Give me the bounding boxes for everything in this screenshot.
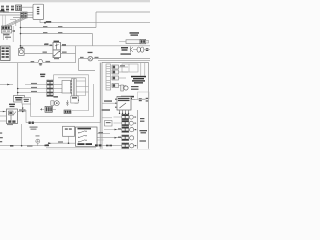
relay Z label <box>9 104 15 108</box>
row3 motor circle <box>130 144 134 148</box>
wire diagonal 2 <box>7 18 24 26</box>
row1 motor circle <box>130 128 134 132</box>
wire W2 riser and top run <box>96 12 150 28</box>
ambient sensor text <box>54 96 59 97</box>
black title bar <box>0 10 5 11</box>
wire X right out <box>97 133 110 135</box>
heater box Y marks <box>65 128 72 129</box>
connector H strip a <box>47 80 50 97</box>
arrow M <box>48 142 51 144</box>
wire out of switch <box>61 53 76 55</box>
wire drop left b <box>4 16 6 27</box>
wire W4 long <box>21 45 151 47</box>
wire Y drop <box>68 136 70 143</box>
ignition contacts <box>80 131 86 142</box>
component engine sensor text <box>54 41 60 42</box>
label right of diode <box>62 44 66 45</box>
pressure switch contact <box>120 103 127 108</box>
box W2 small <box>22 98 31 105</box>
relay Z stem <box>10 115 12 121</box>
label W4 color <box>44 44 49 45</box>
control box top edge <box>102 61 149 63</box>
label carb wire <box>31 61 35 62</box>
wire mid vertical <box>12 26 14 42</box>
relay block R2 cell <box>113 71 115 74</box>
wire diagonal 1 <box>5 18 22 26</box>
thermo box top right <box>71 96 78 103</box>
wire thermo vertical left <box>17 63 19 96</box>
relay block R3 <box>112 76 119 80</box>
trimmer circle <box>36 139 40 143</box>
label trimmer below <box>27 145 33 146</box>
label under switch <box>54 58 59 59</box>
connector C101 top <box>2 26 12 30</box>
label evap text <box>102 109 111 110</box>
tiny caption top <box>7 124 13 125</box>
fusible link box <box>16 5 22 11</box>
relay block R1 cell <box>113 66 115 69</box>
fan control box G <box>62 81 71 94</box>
connector CJ2 <box>24 12 27 18</box>
thermal protector circle <box>124 86 128 90</box>
label dark mid-left <box>40 74 45 78</box>
label protector rows <box>131 86 139 90</box>
label W1 wire color <box>46 21 51 23</box>
row A tick <box>134 117 136 118</box>
node M junction <box>68 142 70 144</box>
label W3 color a <box>43 32 47 33</box>
wire H out 2 <box>53 88 62 90</box>
wire row3 <box>0 14 33 16</box>
wire C101 drop b <box>6 33 8 40</box>
terminal marks far right <box>146 98 148 102</box>
wire relay R2 out <box>119 71 129 73</box>
nested box L4 <box>26 63 101 123</box>
label fan feed 0 <box>31 83 37 84</box>
arrow stub head <box>7 84 10 86</box>
fuse F1 labels row1 <box>1 6 14 8</box>
wire pressure right cont <box>142 99 146 101</box>
label under C101 <box>3 34 10 36</box>
wire stub into fuse strip <box>119 41 126 43</box>
condenser fan row 2 wire <box>97 137 122 139</box>
cylinder b <box>141 47 144 52</box>
row B wire <box>114 122 122 124</box>
node W1 junction <box>44 22 46 24</box>
connector CJ1 <box>20 12 23 18</box>
wire capacitor dashes <box>43 108 45 110</box>
noise condenser block <box>45 106 52 112</box>
compressor clutch text <box>121 47 132 55</box>
vertical drop to bus <box>21 124 23 146</box>
wire relay R4 out <box>119 85 127 87</box>
label small mid <box>5 37 11 38</box>
thermal protector connector <box>121 85 124 91</box>
row2 motor circle <box>130 136 134 140</box>
label X right <box>99 132 104 133</box>
pressure switch pins left <box>115 99 116 108</box>
wire W3 drop <box>92 34 94 46</box>
row2 arrow <box>115 137 118 139</box>
label relay R1 <box>120 65 125 66</box>
label W2 color b <box>58 26 62 27</box>
terminal mark right <box>146 48 149 51</box>
label fan feed 1 <box>31 87 37 88</box>
pins bottom dots <box>119 113 129 114</box>
label left of diode <box>45 43 53 45</box>
relay block R3 cell <box>113 77 115 80</box>
row3 label dark <box>106 145 112 147</box>
label W2 color a <box>43 26 47 27</box>
fusible link cells <box>17 6 21 10</box>
lamp cross <box>89 57 92 60</box>
wire trunk corner <box>10 20 16 27</box>
label fan feed 2 <box>31 91 37 92</box>
nested box L2 <box>54 75 89 111</box>
nested box L3 left edge <box>30 104 32 117</box>
connector I strip b <box>74 79 76 97</box>
wire Z arrow <box>3 111 5 113</box>
cylinder a <box>137 47 140 52</box>
node bus <box>21 145 23 147</box>
connector C101 lower <box>2 30 12 33</box>
inner box blower <box>122 64 138 72</box>
noise condenser stripes <box>46 107 52 111</box>
ignition switch box X <box>76 127 98 146</box>
label Z right <box>19 109 26 110</box>
main relay text <box>37 7 39 15</box>
label lamp wire right <box>95 57 99 58</box>
ambient sensor connector <box>51 101 54 106</box>
wire row4 <box>13 17 33 19</box>
fuse strip dark cells <box>141 40 145 43</box>
wire Z drop vertical <box>22 104 24 112</box>
switch contact <box>54 51 59 56</box>
main relay box <box>33 4 44 19</box>
relay Z coil box <box>9 111 14 115</box>
antenna trimmer text <box>30 127 38 130</box>
diode symbol <box>55 44 59 50</box>
switch box <box>53 50 61 58</box>
ignition unit E box <box>19 49 25 56</box>
relay box small left <box>105 121 113 127</box>
pressure switch pins bottom <box>120 110 129 113</box>
wire I out 2 <box>76 86 88 88</box>
control box left border double <box>100 62 102 148</box>
wire C101 drop a <box>3 33 5 40</box>
box T2 text <box>15 97 23 101</box>
row1 right text <box>140 130 148 133</box>
ignition unit E circle <box>19 50 23 54</box>
row A wire <box>114 116 122 118</box>
node W3 <box>20 33 22 35</box>
vertical conduits right <box>140 63 142 76</box>
fuse box label right <box>130 32 140 36</box>
capacitor plus mark <box>40 108 42 110</box>
wire relay R1 out <box>119 66 129 68</box>
bottom scan band <box>0 149 150 150</box>
connector D block <box>1 46 10 61</box>
row1 connector pair <box>122 127 129 133</box>
label above row2 <box>3 10 9 13</box>
wire trunk main <box>20 18 22 46</box>
row1 label <box>118 128 121 129</box>
row2 connector pair <box>122 135 129 141</box>
wire arrow stub <box>0 84 13 86</box>
relay Z base blocks <box>8 120 15 122</box>
relay box small marks <box>106 122 111 123</box>
faint box right <box>138 92 150 99</box>
wire fan feed 2 <box>18 92 47 94</box>
row3 connector pair <box>122 143 129 149</box>
ambient sensor dot <box>56 102 58 104</box>
wire drop left a <box>2 16 4 27</box>
ignition switch title <box>78 128 92 130</box>
wire row2 <box>0 12 33 14</box>
wire second bus <box>98 60 150 62</box>
relay block R4 <box>112 84 119 88</box>
wire M long <box>25 143 76 146</box>
lamp circle <box>88 56 93 61</box>
wire Z left 3 <box>0 120 7 122</box>
relay Z contact diag <box>13 112 16 116</box>
label M mid <box>58 141 63 142</box>
fuse strip right <box>126 40 140 44</box>
terminal strip S1 <box>106 64 111 90</box>
label lamp wire left <box>80 57 84 58</box>
switch pins <box>53 55 54 56</box>
ignition unit E label <box>20 47 23 48</box>
notes text col <box>0 132 3 142</box>
wire into switch <box>24 53 53 55</box>
pressure switch box <box>117 97 131 111</box>
fuse strip tail <box>146 40 149 43</box>
wire ignition stub2 <box>97 139 104 141</box>
compressor text block <box>131 76 146 84</box>
relay Z coil mark <box>9 112 12 114</box>
row2 label <box>118 137 121 138</box>
wire W2 horizontal <box>21 27 97 29</box>
node fan feed 2 <box>17 92 19 94</box>
lamp label <box>88 52 93 53</box>
condenser fan row 3 wire <box>102 145 122 147</box>
connector I pins <box>71 80 72 93</box>
relay block R2 <box>112 70 119 74</box>
nested box L3 <box>31 84 94 117</box>
connector H strip b <box>51 80 54 97</box>
row3 tick <box>135 145 137 146</box>
wire Z left 1 <box>0 111 7 113</box>
arrow Z drop <box>22 108 24 111</box>
carb heater base <box>39 63 42 65</box>
wire carb heater cont <box>43 62 76 64</box>
inner vertical divider <box>137 110 139 149</box>
wire carb heater <box>0 62 38 64</box>
row B connector pair <box>122 120 129 126</box>
thermo box text <box>72 97 77 98</box>
ignition dots mid <box>85 131 86 141</box>
relay block R4 cell <box>113 84 115 87</box>
wire battery feed <box>22 6 33 8</box>
row2 right text <box>140 140 147 141</box>
wire evap stub <box>102 117 112 119</box>
carb heater bump <box>38 59 43 62</box>
row B circle <box>129 121 133 125</box>
node W4 <box>20 45 22 47</box>
wire out of cylinders <box>144 49 150 51</box>
row1 arrow <box>115 129 118 131</box>
box W2 marks <box>24 99 30 102</box>
connector CJ cells <box>21 13 27 18</box>
diode assembly box <box>53 43 61 51</box>
wire thermo riser <box>75 46 77 63</box>
resistor dark block <box>64 110 71 114</box>
wire diagonal 3 <box>10 18 26 26</box>
connector H rungs <box>47 80 53 96</box>
wire Z left 2 <box>0 115 7 117</box>
wire condenser out <box>52 108 56 110</box>
top scan band <box>0 0 150 2</box>
label condenser row <box>121 96 134 100</box>
condenser fan row 1 wire <box>104 129 122 131</box>
wire H top riser <box>53 75 55 80</box>
wire bottom left bus <box>0 145 25 147</box>
wire I out 3 <box>76 91 88 93</box>
wire lamp row <box>79 58 151 60</box>
wire I out 1 <box>76 80 85 82</box>
trimmer marks above <box>36 135 40 136</box>
inner text marks L2 <box>75 100 80 104</box>
connector D bars <box>2 47 9 57</box>
wire into pressure switch <box>102 102 115 104</box>
wire fan feed 1 <box>18 88 47 90</box>
label switch wire a <box>43 52 47 53</box>
terminal strip S1 rungs <box>106 66 110 88</box>
relay Z box <box>7 109 18 124</box>
nested box L1 <box>58 78 86 96</box>
wire Z right <box>18 111 27 113</box>
fuse F1 labels row2 <box>1 9 14 11</box>
pressure out marks <box>139 98 142 101</box>
C101 lower box marks <box>3 31 11 32</box>
label pressure wire <box>104 100 112 101</box>
ambient sensor circle <box>54 101 59 106</box>
connector I strip a <box>72 79 74 97</box>
dark mark on bus <box>10 145 13 146</box>
wire relay R3 out <box>119 77 127 79</box>
connector pair on L4 line <box>29 122 34 125</box>
label right column rows <box>140 118 144 122</box>
paper background <box>0 0 150 150</box>
wire H out 1 <box>53 84 62 86</box>
label M dark left <box>45 145 50 147</box>
wire pressure out right <box>131 99 139 101</box>
nested box L4 left edge <box>25 110 27 123</box>
row A circle <box>129 115 133 119</box>
label carb wire b <box>46 61 51 62</box>
pressure switch hatch rows <box>118 98 130 101</box>
label W3 color b <box>58 32 62 33</box>
ignition dark bottom row <box>78 143 93 145</box>
node fan feed 1 <box>17 88 19 90</box>
wire lamp drop <box>79 59 96 71</box>
wire into cylinders <box>133 49 137 51</box>
connector C101 cells <box>2 27 9 29</box>
resistor stripes <box>65 111 71 113</box>
trimmer cross <box>36 140 39 143</box>
heater box Y <box>63 126 75 136</box>
control box right border <box>148 62 150 148</box>
wire bottom long <box>46 147 96 149</box>
fuse strip dark block <box>140 39 146 43</box>
wire H out 3 <box>53 92 62 94</box>
clutch coil mark <box>131 47 134 53</box>
wire W1 out of relay <box>40 20 150 23</box>
row A connector pair <box>122 114 129 120</box>
box T2 tall left <box>14 96 25 103</box>
relay block R1 <box>112 65 119 69</box>
row B tick <box>134 123 136 124</box>
wire fan feed 0 <box>25 84 47 86</box>
label switch wire b <box>62 52 67 53</box>
tick mark right of C101 <box>13 30 15 32</box>
trimmer stem <box>37 144 39 146</box>
inner box divider <box>128 64 130 72</box>
row1 tick <box>135 129 137 130</box>
wire W3 horizontal <box>21 33 93 35</box>
node Z drop <box>22 111 24 113</box>
thermo probe marks <box>66 100 69 106</box>
dark connector bottom <box>95 144 101 146</box>
ignition pins left <box>78 132 79 142</box>
wire condenser underline <box>120 99 135 101</box>
node W2 <box>20 27 22 29</box>
